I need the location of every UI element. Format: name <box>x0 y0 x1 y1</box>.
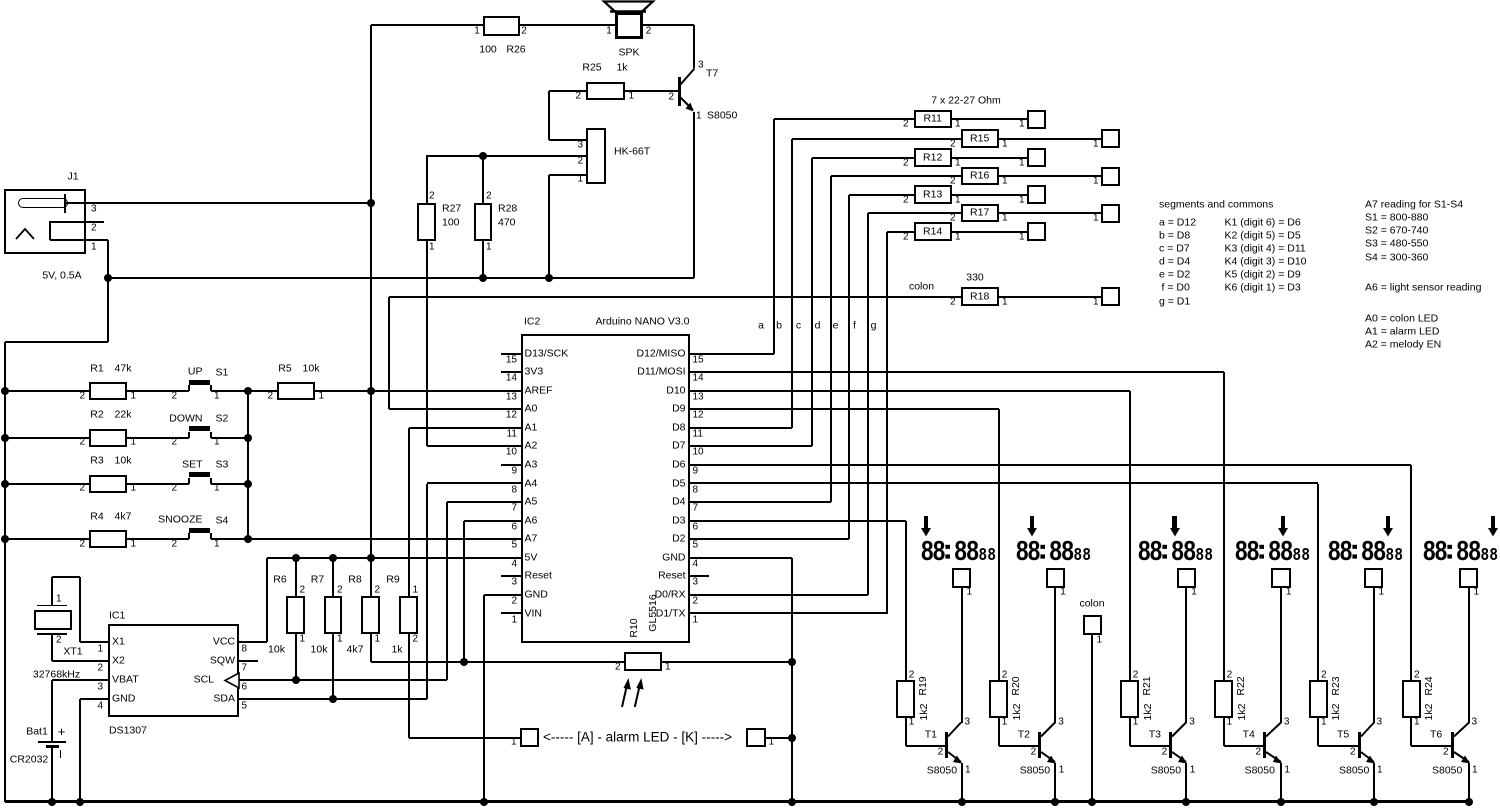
junction 5V wire <box>329 554 337 562</box>
pad display common T4 <box>1271 568 1291 588</box>
IC2 left pin 15 D13/SCK <box>501 353 521 355</box>
wire R6 top to 5V wire <box>295 558 297 596</box>
IC2 left pin 8 A4 <box>501 482 521 484</box>
wire pad to T3 collector <box>1185 588 1187 723</box>
wire R11 left <box>774 118 914 120</box>
IC2 right pin 10 D7 <box>690 445 709 447</box>
wire R25 to T7 base <box>625 90 678 92</box>
IC2 right pin 1 D1/TX <box>690 612 709 614</box>
IC2 left pin 1 VIN <box>501 612 521 614</box>
wire R21 to T3 base <box>1129 718 1131 747</box>
wire segment net e <box>690 538 849 540</box>
pad display common T5 <box>1364 568 1384 588</box>
transistor T6 S8050 <box>1451 732 1454 758</box>
wire T2 emitter to bus <box>1054 763 1056 802</box>
wire IC2 pin 13 to digit driver riser x=1130 <box>690 390 1130 392</box>
svg-text:8: 8 <box>1361 536 1374 564</box>
IC1 SQW stub <box>239 660 258 662</box>
wire segment net g <box>690 612 887 614</box>
svg-text:8: 8 <box>1302 546 1310 564</box>
junction bus colon <box>1088 798 1096 806</box>
wire A7 row to pin <box>248 538 501 540</box>
wire R7 top to 5V wire <box>332 558 334 596</box>
pad for R18 <box>1101 287 1120 306</box>
transistor T3 S8050 <box>1169 732 1172 758</box>
svg-text:8: 8 <box>1386 546 1394 564</box>
wire T3 emitter to bus <box>1185 763 1187 802</box>
wire IC2 pin 6 to digit driver riser x=906 <box>690 520 906 522</box>
wire J1 pin 1 down to ground wire <box>107 240 109 278</box>
junction ground wire / J1 pin1 <box>104 274 112 282</box>
wire VCC riser to 5V <box>266 558 268 642</box>
IC1 pin 6 SCL <box>194 674 214 685</box>
node b label <box>776 320 782 331</box>
IC2 right pin 14 D11/MOSI <box>690 371 709 373</box>
wire R10 to GND riser <box>662 661 793 663</box>
wire IC2 pin 8 to digit driver riser x=1318 <box>690 482 1319 484</box>
R26 value label 100 <box>479 44 497 55</box>
wire R20 to T2 base <box>998 718 1000 747</box>
junction bus T1 <box>958 798 966 806</box>
junction bus / battery <box>48 798 56 806</box>
junction SDA / R7 <box>329 695 337 703</box>
junction ground wire / HK-66T <box>545 274 553 282</box>
wire A4 to SDA <box>427 482 502 484</box>
wire SPK to T7 collector <box>643 24 694 26</box>
resistor R2 <box>89 429 127 447</box>
junction bus / IC1 GND <box>76 798 84 806</box>
wire S3 to common <box>211 483 249 485</box>
wire R13 left <box>849 194 915 196</box>
junction switch common row <box>244 434 252 442</box>
junction A6 / R10 wire <box>460 658 468 666</box>
IC2 left pin 3 Reset <box>501 575 521 577</box>
wire ground bus <box>5 800 1469 803</box>
wire rail to R3 <box>5 483 90 485</box>
junction R28 top <box>479 152 487 160</box>
wire colon pad to bus <box>1091 635 1093 802</box>
wire R18 to pad <box>999 296 1102 298</box>
label R18 value 330 <box>966 272 984 283</box>
IC1 pin 2 X2 <box>112 655 125 666</box>
wire battery to bus <box>51 747 53 802</box>
pad for R11 <box>1027 110 1046 129</box>
wire R26 to speaker <box>520 24 615 26</box>
IC2 left pin 7 A5 <box>501 501 521 503</box>
svg-text:8: 8 <box>1280 536 1293 564</box>
wire 5V pin <box>267 557 501 559</box>
wire R24 to T6 base <box>1410 718 1412 747</box>
wire R2 to S2 <box>127 437 189 439</box>
wire R3 to S3 <box>127 483 189 485</box>
svg-text:8: 8 <box>1235 536 1248 564</box>
J1 pin 3 label <box>91 205 97 215</box>
svg-text:8: 8 <box>1196 546 1204 564</box>
IC2 right pin 11 D8 <box>690 427 709 429</box>
IC2 right pin 6 D3 <box>690 520 709 522</box>
wire R9 to alarm LED <box>408 634 410 738</box>
wire S1 to common <box>211 390 249 392</box>
wire segment net b <box>690 427 793 429</box>
svg-text:8: 8 <box>1083 546 1091 564</box>
transistor T7 S8050 <box>678 77 682 106</box>
wire R15 to pad <box>999 138 1102 140</box>
J1 pin 1 contact <box>49 221 51 240</box>
J1 pin 2 contact <box>50 221 104 223</box>
IC2 right pin 8 D5 <box>690 482 709 484</box>
pad alarm LED anode <box>520 728 540 748</box>
svg-text:8: 8 <box>1435 536 1448 564</box>
wire SCL to A5 riser <box>239 679 447 681</box>
svg-text:8: 8 <box>1205 546 1213 564</box>
svg-text:8: 8 <box>1171 536 1184 564</box>
LDR R10 GL5516 <box>624 652 662 671</box>
wire R7 bottom <box>332 634 334 699</box>
wire R12 left <box>812 157 915 159</box>
legend A7 readings <box>1365 199 1463 210</box>
svg-text:8: 8 <box>1150 536 1163 564</box>
svg-text:8: 8 <box>1138 536 1151 564</box>
IC1 pin 3 VBAT <box>112 674 139 685</box>
IC1 pin 7 SQW <box>210 655 235 666</box>
wire R28 bottom to ground wire <box>482 241 484 278</box>
wire R25 to HK-66T pin 3 <box>549 90 586 92</box>
resistor R26 <box>483 16 520 36</box>
wire R22 to T4 base <box>1223 718 1225 747</box>
arrow digit select T4 <box>1281 516 1285 529</box>
pad for R14 <box>1027 222 1046 241</box>
wire R5 to AREF <box>315 390 501 392</box>
IC2 left pin 10 A2 <box>501 445 521 447</box>
wire pad to T6 collector <box>1468 588 1470 723</box>
IC2 right pin 13 D10 <box>690 390 709 392</box>
resistor R21 1k2 <box>1120 680 1139 718</box>
svg-text:8: 8 <box>979 546 987 564</box>
svg-text:8: 8 <box>933 536 946 564</box>
wire R12 to pad <box>952 157 1028 159</box>
resistor R14 <box>914 222 952 241</box>
wire T5 emitter to bus <box>1373 763 1375 802</box>
wire R23 to T5 base <box>1317 718 1319 747</box>
wire R6 bottom <box>295 634 297 680</box>
svg-text:8: 8 <box>1028 536 1041 564</box>
resistor R27 <box>417 203 436 241</box>
wire S4 to common <box>211 538 502 540</box>
display T1 88:88 <box>921 534 1001 564</box>
junction switch common row <box>244 535 252 543</box>
junction bus T3 <box>1182 798 1190 806</box>
svg-text:8: 8 <box>1373 536 1386 564</box>
wire HK-66T pin 2 node <box>426 155 586 157</box>
resistor R22 1k2 <box>1214 680 1233 718</box>
display T5 88:88 <box>1328 534 1408 564</box>
wire S2 to common <box>211 437 249 439</box>
wire VBAT to battery <box>52 679 108 681</box>
pad for R17 <box>1101 204 1120 223</box>
wire top ground <box>108 277 694 279</box>
resistor R25 <box>586 82 625 100</box>
display T3 88:88 <box>1138 534 1218 564</box>
svg-text:8: 8 <box>1468 536 1481 564</box>
svg-text:8: 8 <box>1016 536 1029 564</box>
speaker SPK <box>615 12 643 39</box>
junction 5V wire <box>292 554 300 562</box>
pad for R12 <box>1027 148 1046 167</box>
resistor R19 1k2 <box>896 680 915 718</box>
resistor R4 <box>89 530 127 548</box>
junction 5V rail / J1 <box>367 199 375 207</box>
junction bus / GND <box>788 798 796 806</box>
svg-text:8: 8 <box>1328 536 1341 564</box>
wire XT1 pin 1 to X1 <box>51 577 53 606</box>
pad for R16 <box>1101 167 1120 186</box>
wire rail to R1 <box>5 390 90 392</box>
wire segment net d <box>690 501 831 503</box>
pad for R15 <box>1101 129 1120 148</box>
resistor R9 <box>399 596 418 634</box>
resistor R16 <box>961 167 999 186</box>
junction switch common row <box>244 480 252 488</box>
wire R17 to pad <box>999 212 1102 214</box>
resistor R17 <box>961 204 999 223</box>
resistor R23 1k2 <box>1309 680 1328 718</box>
pad display common T1 <box>952 568 972 588</box>
svg-text:8: 8 <box>1395 546 1403 564</box>
switch S4 SNOOZE <box>188 533 190 539</box>
wire T7 emitter to ground wire <box>693 112 695 278</box>
wire R14 to pad <box>952 231 1028 233</box>
wire pad to T2 collector <box>1054 588 1056 723</box>
pad alarm LED cathode <box>746 728 766 748</box>
junction left rail row 3 <box>1 480 9 488</box>
resistor R3 <box>89 475 127 493</box>
svg-text:8: 8 <box>1423 536 1436 564</box>
wire segment net f <box>690 594 868 596</box>
node a label <box>758 320 764 331</box>
IC2 right pin 2 D0/RX <box>690 594 709 596</box>
wire pad to T5 collector <box>1373 588 1375 723</box>
IC1 pin 4 GND <box>112 693 135 704</box>
wire R1 to S1 <box>127 390 189 392</box>
wire J1 pin 3 to 5V rail <box>66 202 371 204</box>
svg-text:8: 8 <box>921 536 934 564</box>
IC2 right pin 4 GND <box>690 557 709 559</box>
svg-text:8: 8 <box>988 546 996 564</box>
resistor R7 <box>324 596 343 634</box>
junction left rail row 1 <box>1 387 9 395</box>
svg-text:8: 8 <box>1183 536 1196 564</box>
IC2 left pin 12 A0 <box>501 408 521 410</box>
IC2 left pin 4 5V <box>501 557 521 559</box>
junction left rail row 4 <box>1 535 9 543</box>
svg-text:8: 8 <box>1061 536 1074 564</box>
svg-text:8: 8 <box>1490 546 1498 564</box>
node g label <box>871 320 877 331</box>
IC2 left pin 14 3V3 <box>501 371 521 373</box>
junction bus / IC2 GND <box>480 798 488 806</box>
svg-text:8: 8 <box>966 536 979 564</box>
resistor R12 <box>914 148 952 167</box>
pad display common T3 <box>1177 568 1197 588</box>
resistor R20 1k2 <box>989 680 1008 718</box>
node c label <box>796 320 801 331</box>
svg-text:8: 8 <box>1481 546 1489 564</box>
resistor R15 <box>961 129 999 148</box>
arrow digit select T5 <box>1386 516 1390 529</box>
arrow digit select T6 <box>1491 516 1495 529</box>
arrow digit select T1 <box>924 516 928 529</box>
wire R16 left <box>831 175 962 177</box>
svg-text:8: 8 <box>1293 546 1301 564</box>
IC2 right pin 5 D2 <box>690 538 709 540</box>
node e label <box>833 320 839 331</box>
svg-text:8: 8 <box>1074 546 1082 564</box>
IC1 pin 1 X1 <box>112 636 125 647</box>
junction SCL / R6 <box>292 676 300 684</box>
wire T1 emitter to bus <box>961 763 963 802</box>
wire pad to T1 collector <box>961 588 963 723</box>
transistor T5 S8050 <box>1358 732 1361 758</box>
junction bus T2 <box>1051 798 1059 806</box>
wire R13 to pad <box>952 194 1028 196</box>
wire common to R5 <box>248 390 277 392</box>
resistor R18 <box>961 287 999 306</box>
pad colon LED <box>1079 598 1104 609</box>
label resistor network value <box>931 95 1000 106</box>
wire segment net a <box>690 353 775 355</box>
wire XT1 pin 2 to X2 <box>51 634 53 661</box>
IC1 SCL clock marker <box>223 672 241 689</box>
wire alarm LED cathode to GND riser <box>766 737 793 739</box>
resistor R28 <box>474 203 492 241</box>
resistor R24 1k2 <box>1402 680 1421 718</box>
IC1 pin 5 SDA <box>213 693 235 704</box>
display T4 88:88 <box>1235 534 1315 564</box>
wire R8 to R10 <box>370 634 372 662</box>
wire R4 to S4 <box>127 538 189 540</box>
junction left rail row 2 <box>1 434 9 442</box>
wire R28 top to node <box>482 156 484 203</box>
junction R10 right <box>788 658 796 666</box>
IC2 right pin 15 D12/MISO <box>690 353 709 355</box>
label colon net <box>909 281 934 292</box>
IC2 left pin 11 A1 <box>501 427 521 429</box>
resistor R5 <box>277 382 315 400</box>
IC2 right pin 9 D6 <box>690 464 709 466</box>
pad for R13 <box>1027 185 1046 204</box>
IC U1 DS1307 RTC IC1 <box>108 624 239 717</box>
label alarm LED <box>543 730 732 744</box>
legend segments and commons <box>1159 199 1273 210</box>
wire pad to T4 collector <box>1280 588 1282 723</box>
wire R15 left <box>792 138 961 140</box>
IC2 left pin 13 AREF <box>501 390 521 392</box>
wire R8 bottom <box>370 634 372 662</box>
wire R14 left <box>887 231 915 233</box>
resistor R1 <box>89 382 127 400</box>
wire switch common vertical <box>247 391 249 539</box>
svg-text:8: 8 <box>1268 536 1281 564</box>
wire R17 left <box>868 212 962 214</box>
arrow digit select T3 <box>1172 516 1176 529</box>
IC1 pin 8 VCC <box>213 636 235 647</box>
svg-text:8: 8 <box>1049 536 1062 564</box>
LDR light arrows <box>615 677 645 709</box>
wire rail to R4 <box>5 538 90 540</box>
crystal XT1 32768kHz <box>37 605 67 607</box>
svg-text:8: 8 <box>954 536 967 564</box>
wire IC2 pin 12 to digit driver riser x=999 <box>690 408 999 410</box>
resistor R6 <box>286 596 305 634</box>
junction switch common row <box>244 387 252 395</box>
wire IC2 pin 14 to digit driver riser x=1224 <box>690 371 1224 373</box>
wire R26 to 5V rail <box>371 24 484 26</box>
junction bus T5 <box>1370 798 1378 806</box>
node f label <box>853 320 856 331</box>
wire R27 top to node <box>426 156 428 203</box>
battery Bat1 CR2032 <box>38 741 66 743</box>
junction bus T6 <box>1465 798 1473 806</box>
wire R19 to T1 base <box>905 718 907 747</box>
pad display common T2 <box>1046 568 1066 588</box>
op-amp IC2 Arduino NANO V3.0 <box>521 334 690 643</box>
svg-text:8: 8 <box>1340 536 1353 564</box>
switch S2 DOWN <box>188 432 190 438</box>
junction 5V wire <box>367 554 375 562</box>
connector J1 power jack <box>4 189 86 254</box>
wire segment net c <box>690 445 812 447</box>
wire 5V rail vertical <box>370 25 372 596</box>
wire left rail from J1 <box>107 278 109 343</box>
IC2 left pin 9 A3 <box>501 464 521 466</box>
J1 barrel pin symbol <box>18 198 68 208</box>
resistor R11 <box>914 110 952 129</box>
IC2 right pin 3 Reset <box>690 575 709 577</box>
wire IC2 pin 9 to digit driver riser x=1411 <box>690 464 1412 466</box>
IC2 right pin 7 D4 <box>690 501 709 503</box>
display T6 88:88 <box>1423 534 1500 564</box>
wire GND right pin to bus <box>690 557 793 559</box>
IC2 left pin 5 A7 <box>501 538 521 540</box>
junction alarm LED right <box>788 734 796 742</box>
node d label <box>815 320 821 331</box>
arrow digit select T2 <box>1030 516 1034 529</box>
wire R16 to pad <box>999 175 1102 177</box>
wire A5 to SCL <box>447 501 501 503</box>
wire T6 emitter to bus <box>1468 763 1470 802</box>
transistor T2 S8050 <box>1038 732 1041 758</box>
wire SDA to A4 riser <box>239 698 427 700</box>
wire A6 to LDR divider <box>464 520 501 522</box>
switch S1 UP <box>188 385 190 391</box>
junction 5V rail / AREF wire <box>367 387 375 395</box>
switch S3 SET <box>188 478 190 484</box>
J1 chassis contact zigzag <box>13 226 39 242</box>
wire colon net R18 to A0 <box>389 296 961 298</box>
wire GND left pin to bus <box>484 594 501 596</box>
resistor R8 <box>361 596 380 634</box>
transistor T4 S8050 <box>1263 732 1266 758</box>
wire R27 bottom to A2 <box>426 241 428 446</box>
IC2 left pin 2 GND <box>501 594 521 596</box>
junction bus T4 <box>1277 798 1285 806</box>
display T2 88:88 <box>1016 534 1096 564</box>
resistor R13 <box>914 185 952 204</box>
svg-text:8: 8 <box>1247 536 1260 564</box>
transistor T1 S8050 <box>945 732 948 758</box>
pad display common T6 <box>1459 568 1479 588</box>
wire T4 emitter to bus <box>1280 763 1282 802</box>
